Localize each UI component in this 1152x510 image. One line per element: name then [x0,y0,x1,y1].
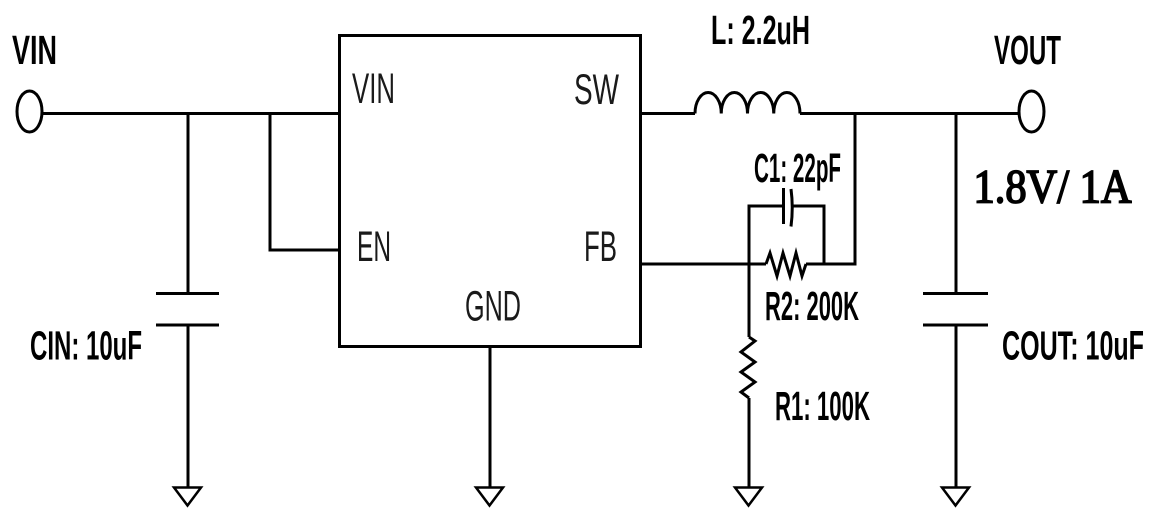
svg-text:VOUT: VOUT [994,27,1061,73]
svg-text:VIN: VIN [352,65,395,113]
svg-text:VIN: VIN [12,27,57,73]
svg-text:R2: 200K: R2: 200K [765,283,859,329]
svg-text:SW: SW [574,66,619,114]
svg-text:L: 2.2uH: L: 2.2uH [711,7,810,53]
svg-text:GND: GND [465,283,521,331]
svg-text:CIN: 10uF: CIN: 10uF [30,323,142,369]
svg-text:1.8V/ 1A: 1.8V/ 1A [974,161,1132,214]
svg-text:COUT: 10uF: COUT: 10uF [1002,323,1144,369]
svg-text:R1: 100K: R1: 100K [775,383,870,429]
svg-text:EN: EN [357,223,391,271]
svg-text:C1: 22pF: C1: 22pF [754,145,841,191]
svg-text:FB: FB [584,223,617,271]
